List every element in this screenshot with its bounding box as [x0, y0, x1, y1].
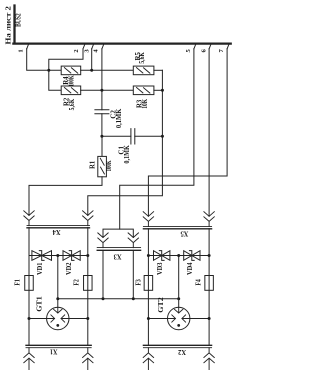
- node 4 tap tick on bus: [102, 45, 104, 49]
- svg-text:0,1MK: 0,1MK: [116, 108, 123, 128]
- arrow out X1 pin 1: [24, 348, 34, 370]
- arrow into X5 pin 2: [204, 212, 214, 227]
- svg-text:VD3: VD3: [157, 262, 164, 275]
- wire X3 pin 1 down to rail: [102, 250, 104, 298]
- svg-text:1: 1: [17, 49, 24, 52]
- svg-text:2: 2: [73, 49, 80, 53]
- wire tap4 to C2 top: [101, 49, 103, 110]
- svg-text:10K: 10K: [142, 98, 149, 108]
- resistor R5: [133, 52, 154, 75]
- wire tap5 to X3 feed: [120, 49, 194, 229]
- wire VD3-VD4 mid down to GT2 top: [178, 256, 180, 308]
- junction dots top section: [47, 69, 164, 138]
- wire GT1 left lead: [29, 318, 47, 320]
- capacitor C1: [102, 129, 162, 164]
- arrow into X4 pin 2: [83, 211, 93, 226]
- wire tap6 to X5 pin2 arrow: [208, 49, 210, 217]
- connector X5 bar: [143, 225, 211, 227]
- svg-text:F3: F3: [136, 279, 143, 286]
- svg-text:X5: X5: [180, 229, 188, 238]
- wire VD1-VD2 mid down to GT1 top: [57, 256, 59, 308]
- wire tap2 to R2 left: [49, 49, 83, 91]
- wire X4 pin1 column down to X1: [28, 228, 30, 346]
- surge arrester GT2: [157, 297, 190, 330]
- wire tap7 to X5 pin1 arrow: [148, 49, 227, 217]
- capacitor C2: [95, 108, 123, 136]
- surge arrester GT1: [35, 296, 69, 330]
- X3 feed split wire: [103, 229, 133, 237]
- svg-text:VD1: VD1: [37, 262, 44, 275]
- arrow into X3 pin 2: [128, 233, 138, 248]
- svg-text:5: 5: [185, 48, 192, 52]
- arrow out X1 pin 2: [83, 348, 93, 370]
- connector X3 bar: [97, 247, 140, 249]
- svg-text:X2: X2: [178, 348, 186, 357]
- diode VD2 bidirectional zener: [63, 251, 80, 275]
- wire X3 pin 2 down to rail: [132, 250, 134, 298]
- svg-text:VD2: VD2: [66, 262, 73, 275]
- wire GT2 left lead: [148, 318, 167, 320]
- connector X1 bar: [26, 344, 91, 346]
- node 5 tap tick on bus: [194, 45, 196, 49]
- svg-text:X3: X3: [113, 253, 121, 262]
- wire R4 right to R5 left: [81, 69, 134, 71]
- arrow out X2 pin 2: [204, 348, 214, 370]
- junction dots mid/left section: [28, 254, 181, 320]
- svg-text:GT1: GT1: [35, 296, 43, 312]
- fuse F1: [15, 276, 34, 291]
- svg-text:5,6K: 5,6K: [69, 98, 76, 110]
- fuse F3: [136, 276, 153, 291]
- wire tap1 to R4 left: [27, 49, 62, 71]
- wire GT1 right lead: [69, 318, 88, 320]
- wire R5 right: [154, 69, 163, 71]
- arrow into X3 pin 1: [98, 233, 108, 248]
- arrow into X4 pin 1: [24, 211, 34, 226]
- wire R2 right to R3 left: [81, 89, 134, 91]
- wire VD row: [29, 255, 88, 257]
- connector X2 bar: [143, 344, 211, 346]
- svg-text:F1: F1: [15, 279, 22, 286]
- resistor R2: [61, 86, 80, 110]
- node 7 tap tick on bus: [227, 45, 229, 49]
- resistor R4: [61, 66, 80, 86]
- wire R1 bottom to X4 pin1 arrow: [29, 177, 102, 216]
- svg-text:X4: X4: [52, 228, 60, 237]
- bus BUS2 thick line to sheet 2: [13, 6, 230, 44]
- svg-text:BUS2: BUS2: [15, 13, 22, 27]
- svg-text:X1: X1: [50, 348, 58, 357]
- svg-text:VD4: VD4: [187, 262, 194, 275]
- arrow into X5 pin 1: [143, 212, 153, 227]
- svg-text:4: 4: [92, 49, 99, 53]
- diode VD1 bidirectional zener: [32, 251, 52, 275]
- svg-text:F2: F2: [74, 279, 81, 286]
- arrow out X2 pin 1: [143, 348, 153, 370]
- wire X4 pin2 column down to X1: [87, 228, 89, 346]
- svg-text:F4: F4: [196, 279, 203, 286]
- svg-text:100K: 100K: [69, 75, 76, 87]
- svg-text:7: 7: [218, 48, 225, 52]
- diode VD4 bidirectional zener: [184, 251, 200, 275]
- svg-text:GT2: GT2: [157, 297, 165, 313]
- wire X5 pin2 column down to X2: [208, 229, 210, 346]
- wire X5 pin1 column down to X2: [147, 229, 149, 346]
- diode VD3 bidirectional zener: [154, 251, 170, 275]
- connector X4 bar: [27, 224, 90, 226]
- wire tap3 joins R4-R5 net: [91, 49, 93, 71]
- svg-text:5,6K: 5,6K: [139, 52, 146, 64]
- svg-text:3: 3: [84, 49, 91, 53]
- wire GT2 right lead: [190, 318, 209, 320]
- fuse F4: [196, 276, 214, 291]
- svg-text:0,1MK: 0,1MK: [124, 145, 131, 164]
- junction dots right section: [147, 254, 211, 320]
- wire R3 right: [154, 89, 163, 91]
- node 2 tap tick on bus: [83, 45, 85, 49]
- svg-text:6: 6: [201, 48, 208, 52]
- wire net R5R3C1 down and left to X4 pin2 arrow: [88, 70, 163, 215]
- wire VD34 row: [148, 255, 209, 257]
- node 3 tap tick on bus: [92, 45, 94, 49]
- svg-text:100K: 100K: [106, 160, 113, 172]
- node 6 tap tick on bus: [209, 45, 211, 49]
- node 1 tap tick on bus: [27, 45, 29, 49]
- svg-text:На лист 2: На лист 2: [5, 5, 12, 44]
- resistor R3: [133, 86, 154, 109]
- rail joining X3 pins and GT tops: [58, 298, 179, 300]
- fuse F2: [74, 276, 93, 291]
- svg-text:R1: R1: [90, 160, 97, 169]
- resistor R1: [90, 136, 113, 176]
